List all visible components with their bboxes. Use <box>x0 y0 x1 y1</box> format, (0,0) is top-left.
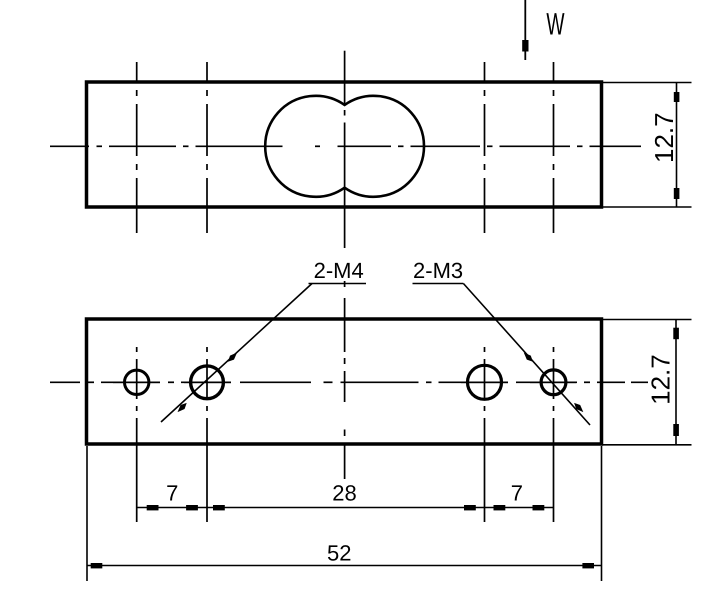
svg-text:7: 7 <box>166 481 178 506</box>
2-M4 leader <box>161 284 366 423</box>
svg-text:28: 28 <box>332 481 356 506</box>
top view hole centerline 1 <box>136 62 138 233</box>
top view horizontal centerline <box>50 145 641 147</box>
2-M3 label <box>413 258 463 283</box>
load arrow W line <box>522 0 528 60</box>
hole crosshair horizontals <box>113 381 577 383</box>
dimension 52 <box>87 541 602 569</box>
hole M4 left <box>191 366 224 399</box>
W label <box>546 7 565 42</box>
top view hole centerline 3 <box>484 62 486 233</box>
svg-text:52: 52 <box>327 541 351 566</box>
2-M4 label <box>314 258 364 283</box>
peanut-shaped cutout <box>265 96 424 197</box>
hole vertical centerline M3 left <box>136 347 138 522</box>
hole M3 left <box>125 370 149 394</box>
hole M4 right <box>468 365 502 399</box>
hole vertical centerline M4 right <box>484 347 486 522</box>
bottom view horizontal centerline <box>50 381 648 383</box>
top view hole centerline 2 <box>206 62 208 233</box>
svg-text:2-M4: 2-M4 <box>314 258 364 283</box>
hole M3 right <box>541 370 566 395</box>
svg-text:7: 7 <box>511 481 523 506</box>
bottom 12.7 dimension <box>602 320 692 445</box>
extension line right edge <box>601 446 603 581</box>
svg-text:12.7: 12.7 <box>646 354 676 405</box>
svg-text:W: W <box>546 7 565 42</box>
common vertical centerline <box>344 51 346 479</box>
hole vertical centerline M3 right <box>553 347 555 522</box>
dimension 7 right <box>485 481 554 511</box>
bottom view outline <box>87 319 602 444</box>
svg-text:2-M3: 2-M3 <box>413 258 463 283</box>
top view hole centerline 4 <box>553 62 555 233</box>
dimension 28 <box>207 481 485 511</box>
2-M3 leader <box>413 284 591 426</box>
top view outline <box>87 82 602 207</box>
dimension 7 left <box>137 481 207 511</box>
top 12.7 dimension <box>602 83 692 208</box>
svg-text:12.7: 12.7 <box>649 112 679 163</box>
hole vertical centerline M4 left <box>206 347 208 522</box>
extension line left edge <box>86 446 88 581</box>
